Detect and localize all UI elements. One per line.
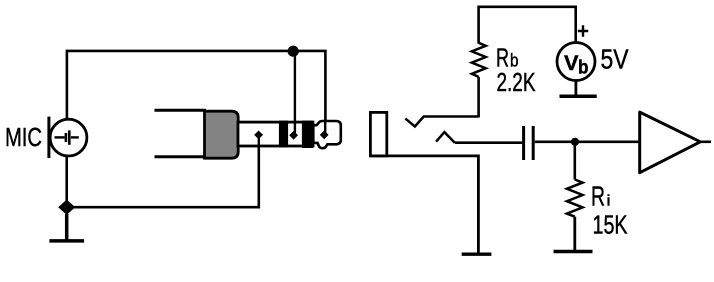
wire tip into tip — [324, 120, 326, 134]
wire mic bottom — [65, 156, 68, 201]
socket tip contact (switch) — [405, 117, 478, 127]
solder dot sleeve — [254, 131, 263, 140]
plug cable top line — [155, 109, 207, 112]
ground (socket) — [462, 252, 492, 255]
svg-text:V: V — [564, 52, 579, 75]
resistor Rb — [472, 43, 486, 77]
junction diamond (mic ground node) — [58, 200, 75, 215]
wire node to op-amp — [575, 141, 640, 144]
wire top bus Rb to Vb — [479, 7, 576, 44]
capacitor — [524, 126, 534, 160]
ground (Vb) — [560, 94, 597, 98]
wire socket sleeve to ground — [371, 156, 478, 254]
wire sleeve return (bottom) — [67, 138, 259, 207]
plug body (handle) — [205, 111, 239, 158]
wire capacitor to node — [535, 141, 574, 144]
plug tip — [313, 121, 341, 148]
jack socket bushing — [370, 112, 386, 155]
svg-text:2.2K: 2.2K — [497, 69, 536, 97]
plug cable bottom line — [155, 155, 207, 158]
node (amp input) — [571, 138, 579, 146]
wire node down to Ri — [573, 143, 576, 180]
svg-text:15K: 15K — [593, 209, 628, 239]
microphone MIC (electret capsule) — [49, 117, 87, 158]
svg-text:R: R — [591, 181, 605, 212]
plug insulator band 1 — [279, 121, 288, 148]
voltage source Vb — [557, 43, 595, 81]
wire ring contact up — [294, 51, 296, 133]
resistor Ri — [567, 180, 583, 217]
socket ring contact — [436, 132, 455, 143]
svg-text:b: b — [578, 58, 589, 79]
wire op-amp output stub — [700, 141, 711, 144]
wire Ri bottom — [573, 217, 576, 252]
svg-text:5V: 5V — [601, 44, 630, 75]
plug insulator band 2 — [302, 121, 313, 148]
ground (mic) — [49, 214, 84, 241]
svg-text:MIC: MIC — [5, 122, 42, 152]
wire sleeve through shaft — [258, 136, 260, 148]
wire tip contact up to Rb — [477, 77, 480, 118]
svg-text:b: b — [510, 50, 519, 70]
op-amp — [640, 112, 701, 173]
junction on top bus (ring tap) — [288, 46, 299, 57]
svg-text:i: i — [607, 193, 611, 210]
wire ring into gap — [294, 121, 296, 134]
label + (Vb positive) — [578, 25, 588, 37]
wire Vb bottom — [575, 80, 578, 96]
solder dot tip — [320, 131, 329, 140]
wire ring contact to capacitor — [455, 141, 522, 144]
wire mic top to plug tip (top bus) — [67, 51, 326, 132]
solder dot ring — [289, 131, 298, 140]
plug shaft — [238, 122, 313, 146]
ground (Ri) — [554, 250, 593, 254]
